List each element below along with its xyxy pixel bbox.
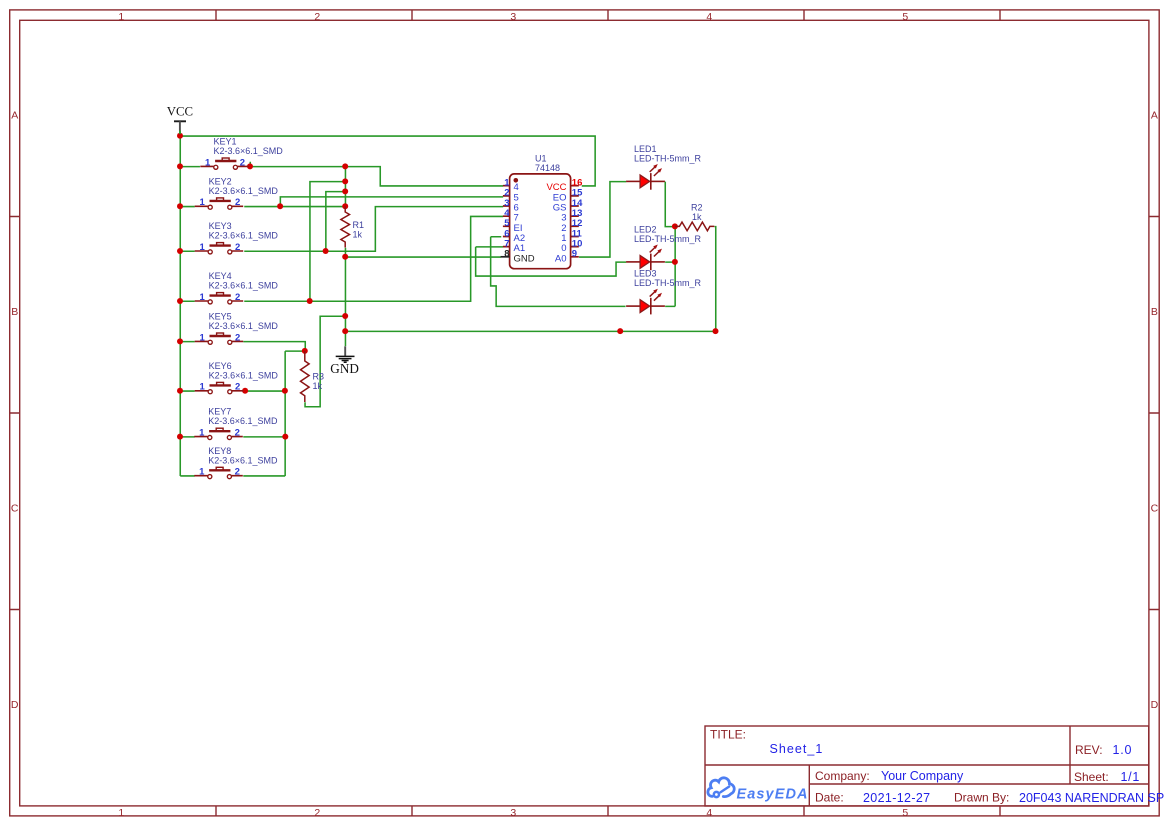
svg-text:1k: 1k [353,230,363,240]
svg-text:LED-TH-5mm_R: LED-TH-5mm_R [634,154,702,164]
svg-text:1: 1 [205,157,211,168]
svg-text:GND: GND [514,253,535,264]
svg-text:2: 2 [314,807,320,819]
svg-text:C: C [1151,503,1159,515]
svg-text:K2-3.6×6.1_SMD: K2-3.6×6.1_SMD [209,321,279,331]
svg-text:B: B [11,306,18,318]
svg-text:D: D [1151,699,1159,711]
svg-text:KEY1: KEY1 [214,137,237,147]
svg-text:KEY3: KEY3 [209,221,232,231]
svg-text:LED2: LED2 [634,225,657,235]
svg-text:2: 2 [235,242,240,253]
svg-text:R2: R2 [691,203,703,213]
svg-text:Date:: Date: [815,791,844,805]
svg-text:KEY5: KEY5 [209,312,232,322]
svg-text:3: 3 [510,11,516,23]
svg-text:K2-3.6×6.1_SMD: K2-3.6×6.1_SMD [208,416,278,426]
svg-text:B: B [1151,306,1158,318]
svg-text:D: D [11,699,19,711]
svg-text:1: 1 [118,807,124,819]
svg-text:4: 4 [706,11,712,23]
svg-text:KEY7: KEY7 [208,407,231,417]
svg-text:LED1: LED1 [634,144,657,154]
svg-text:8: 8 [504,249,509,260]
svg-text:K2-3.6×6.1_SMD: K2-3.6×6.1_SMD [209,281,279,291]
svg-text:KEY2: KEY2 [209,176,232,186]
svg-text:1: 1 [200,332,206,343]
svg-text:KEY4: KEY4 [209,271,232,281]
svg-text:1: 1 [200,242,206,253]
svg-text:9: 9 [572,249,577,260]
svg-text:1.0: 1.0 [1113,743,1133,757]
svg-text:LED-TH-5mm_R: LED-TH-5mm_R [634,234,702,244]
svg-text:Sheet_1: Sheet_1 [770,742,824,756]
svg-text:2: 2 [314,11,320,23]
svg-text:LED3: LED3 [634,269,657,279]
svg-text:4: 4 [706,807,712,819]
svg-text:REV:: REV: [1075,743,1103,757]
svg-text:74148: 74148 [535,163,560,173]
svg-text:GND: GND [330,361,359,376]
svg-text:2: 2 [235,292,240,303]
svg-text:Drawn By:: Drawn By: [954,791,1009,805]
svg-text:1k: 1k [313,381,323,391]
svg-text:C: C [11,503,19,515]
svg-text:EasyEDA: EasyEDA [737,786,808,802]
svg-text:A: A [11,110,18,122]
svg-text:3: 3 [510,807,516,819]
svg-text:2: 2 [235,467,240,478]
svg-text:A: A [1151,110,1158,122]
svg-text:TITLE:: TITLE: [710,728,746,742]
svg-text:2: 2 [240,157,245,168]
svg-text:K2-3.6×6.1_SMD: K2-3.6×6.1_SMD [209,231,279,241]
svg-text:R1: R1 [353,220,365,230]
svg-text:Your Company: Your Company [881,769,964,783]
svg-text:A0: A0 [555,253,567,264]
svg-text:1: 1 [200,382,206,393]
svg-text:1: 1 [199,467,205,478]
svg-text:1: 1 [200,197,206,208]
svg-text:Company:: Company: [815,769,870,783]
svg-text:K2-3.6×6.1_SMD: K2-3.6×6.1_SMD [208,455,278,465]
svg-text:2: 2 [235,382,240,393]
svg-text:K2-3.6×6.1_SMD: K2-3.6×6.1_SMD [214,146,284,156]
svg-text:1/1: 1/1 [1121,770,1140,784]
svg-text:1: 1 [200,292,206,303]
svg-text:2: 2 [235,428,240,439]
svg-text:VCC: VCC [167,105,193,119]
svg-text:1: 1 [199,428,205,439]
svg-text:1k: 1k [692,212,702,222]
svg-text:KEY8: KEY8 [208,446,231,456]
svg-text:2: 2 [235,332,240,343]
svg-text:Sheet:: Sheet: [1074,770,1109,784]
svg-text:R3: R3 [313,372,325,382]
svg-text:U1: U1 [535,154,547,164]
svg-text:LED-TH-5mm_R: LED-TH-5mm_R [634,278,702,288]
svg-text:K2-3.6×6.1_SMD: K2-3.6×6.1_SMD [209,186,279,196]
svg-text:20F043 NARENDRAN SP: 20F043 NARENDRAN SP [1019,791,1164,805]
svg-text:2: 2 [235,197,240,208]
svg-text:KEY6: KEY6 [209,361,232,371]
svg-text:K2-3.6×6.1_SMD: K2-3.6×6.1_SMD [209,370,279,380]
svg-text:5: 5 [902,807,908,819]
svg-text:1: 1 [118,11,124,23]
svg-text:5: 5 [902,11,908,23]
svg-text:2021-12-27: 2021-12-27 [863,791,930,805]
